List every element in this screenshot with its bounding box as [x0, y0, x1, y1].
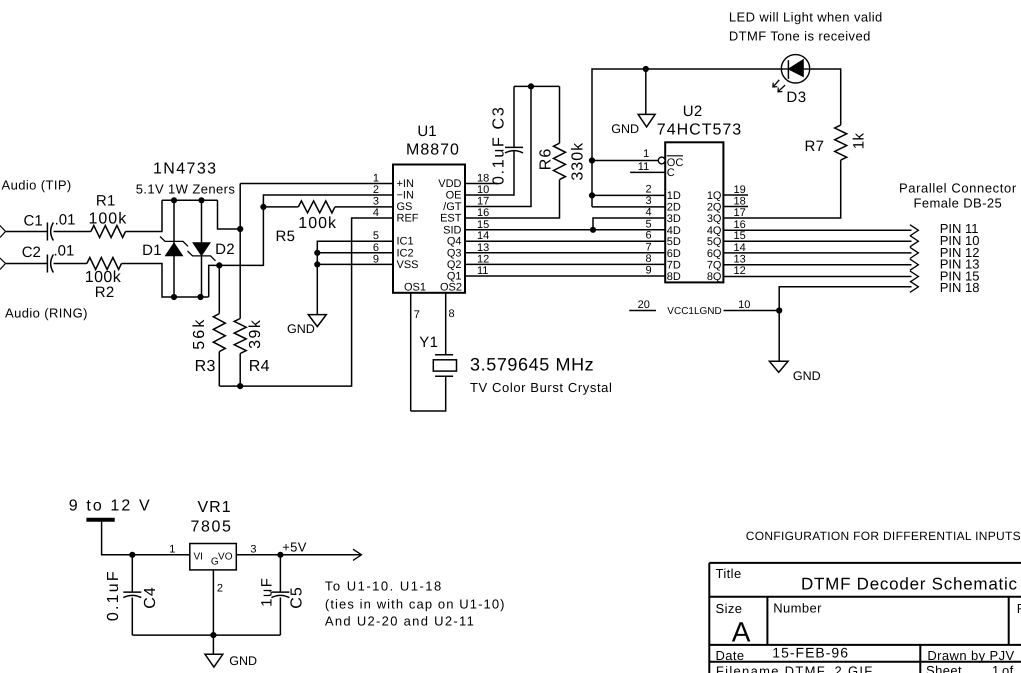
wire RING net to R5/-IN: [209, 207, 264, 297]
wire R3 top lead: [218, 265, 220, 313]
svg-text:Audio (TIP): Audio (TIP): [2, 177, 72, 192]
svg-text:2: 2: [373, 184, 379, 196]
svg-text:5: 5: [645, 218, 651, 230]
svg-text:3: 3: [250, 544, 256, 556]
svg-text:C2: C2: [22, 244, 41, 261]
svg-text:16: 16: [477, 207, 489, 219]
svg-text:R1: R1: [96, 193, 116, 210]
svg-text:1N4733: 1N4733: [153, 161, 217, 178]
wire GND stem: [645, 69, 647, 114]
svg-text:R4: R4: [249, 358, 270, 375]
connector Audio RING input: [0, 258, 6, 270]
svg-text:C1: C1: [24, 213, 43, 230]
svg-text:100k: 100k: [298, 215, 337, 232]
wire Q1 to 8D: [465, 275, 665, 277]
resistor R2: [87, 258, 122, 270]
svg-text:OS2: OS2: [440, 282, 462, 294]
svg-text:REF: REF: [397, 213, 419, 225]
svg-text:11: 11: [638, 161, 649, 173]
svg-text:.01: .01: [55, 212, 76, 229]
ground GND power: [205, 654, 223, 667]
svg-text:+IN: +IN: [397, 178, 414, 190]
svg-text:/GT: /GT: [443, 201, 462, 213]
wire TIP to C1: [6, 231, 48, 233]
svg-text:16: 16: [734, 219, 746, 231]
svg-text:13: 13: [734, 253, 746, 265]
resistor R3: [213, 314, 225, 352]
svg-text:5.1V 1W Zeners: 5.1V 1W Zeners: [136, 182, 236, 197]
svg-text:6: 6: [373, 242, 379, 254]
svg-text:6: 6: [645, 230, 651, 242]
svg-text:19: 19: [734, 184, 746, 196]
svg-text:20: 20: [638, 299, 650, 311]
wire C2 to R2: [54, 263, 87, 265]
wire Q4 to 5D: [465, 240, 665, 242]
wire SID to U2 4D: [465, 229, 665, 231]
svg-text:1: 1: [373, 173, 379, 185]
wire 1D connect: [592, 194, 665, 196]
node 1D junction: [589, 193, 594, 198]
svg-text:PIN 18: PIN 18: [940, 280, 980, 295]
svg-text:10: 10: [738, 299, 750, 311]
wire R5 left lead: [263, 206, 298, 208]
junction dots zener rails: [171, 198, 176, 203]
svg-text:R7: R7: [805, 138, 825, 155]
svg-text:5: 5: [373, 230, 379, 242]
svg-text:2D: 2D: [667, 202, 681, 214]
ground GND near U1: [308, 315, 326, 327]
svg-text:To U1-10. U1-18: To U1-10. U1-18: [325, 579, 443, 594]
resistor R4: [234, 319, 246, 354]
wire VR1 output: [236, 554, 361, 556]
svg-text:Female DB-25: Female DB-25: [914, 196, 1003, 211]
svg-text:GS: GS: [397, 201, 413, 213]
svg-text:18: 18: [477, 173, 489, 185]
svg-text:1: 1: [169, 544, 175, 556]
svg-text:And U2-20 and U2-11: And U2-20 and U2-11: [325, 614, 475, 629]
svg-text:7D: 7D: [667, 259, 681, 271]
svg-text:GND: GND: [287, 322, 315, 336]
svg-text:R6: R6: [537, 148, 554, 170]
wire R2 to zener network bottom: [122, 264, 209, 298]
wire U2 pin 10 stub: [724, 310, 780, 312]
wire Q2 to 7D: [465, 263, 665, 265]
wire R5 to GS: [335, 206, 393, 208]
wire crystal bottom loop: [411, 376, 446, 411]
wire /GT up: [465, 86, 531, 206]
svg-text:U2: U2: [683, 103, 703, 120]
svg-text:100k: 100k: [89, 210, 128, 227]
wire Q3 to 6D: [465, 252, 665, 254]
svg-text:TV Color Burst Crystal: TV Color Burst Crystal: [470, 380, 613, 395]
node TIP junction: [238, 226, 243, 231]
wire supply down: [102, 522, 190, 555]
wire 4Q to PIN 11: [723, 229, 911, 231]
svg-text:SID: SID: [443, 224, 461, 236]
svg-text:R5: R5: [276, 228, 296, 245]
svg-text:Filename DTMF_2.GIF: Filename DTMF_2.GIF: [716, 664, 874, 673]
svg-text:VSS: VSS: [397, 259, 419, 271]
wire pin 11 stub: [630, 171, 665, 173]
svg-text:DTMF Tone is received: DTMF Tone is received: [729, 28, 871, 43]
resistor R1: [91, 226, 126, 238]
wire R6 top lead: [559, 86, 561, 143]
svg-text:D3: D3: [786, 89, 806, 106]
svg-text:17: 17: [734, 207, 746, 219]
svg-text:7: 7: [414, 309, 420, 321]
svg-text:Date: Date: [716, 648, 745, 663]
wire 7Q to PIN 13: [723, 264, 911, 266]
svg-text:EST: EST: [440, 213, 462, 225]
capacitor C1: [46, 223, 48, 241]
node C4 junction: [130, 552, 135, 557]
node C5 junction: [278, 552, 283, 557]
svg-text:7: 7: [645, 241, 651, 253]
wire U2 pin 20 stub: [629, 310, 656, 312]
svg-text:OS1: OS1: [404, 282, 426, 294]
wire OS1 pin 7: [410, 293, 412, 411]
wire SID branch to 3D: [593, 218, 665, 230]
svg-text:11: 11: [477, 265, 488, 277]
wire C3 top to rail: [513, 86, 515, 147]
svg-text:6Q: 6Q: [707, 248, 722, 260]
svg-text:1D: 1D: [667, 190, 681, 202]
svg-text:0.1uF: 0.1uF: [105, 569, 122, 621]
svg-text:3Q: 3Q: [707, 213, 722, 225]
svg-text:8Q: 8Q: [707, 271, 722, 283]
svg-text:U1: U1: [417, 123, 436, 140]
svg-text:4: 4: [645, 207, 651, 219]
svg-text:Rev: Rev: [1017, 601, 1021, 616]
svg-text:12: 12: [477, 253, 489, 265]
svg-text:VCC1LGND: VCC1LGND: [667, 306, 721, 317]
wire OE to C3: [465, 151, 514, 196]
svg-text:LED will Light when valid: LED will Light when valid: [729, 10, 883, 25]
svg-text:Audio (RING): Audio (RING): [5, 306, 88, 321]
wire C1 to R1: [54, 231, 91, 233]
wire R6 to EST: [465, 180, 560, 218]
svg-text:IC2: IC2: [397, 247, 414, 259]
svg-text:17: 17: [477, 196, 489, 208]
svg-text:2Q: 2Q: [707, 202, 722, 214]
svg-text:18: 18: [734, 196, 746, 208]
svg-text:GND: GND: [229, 654, 257, 668]
node GND branch on rail: [643, 66, 648, 71]
svg-text:VDD: VDD: [438, 178, 461, 190]
svg-text:15: 15: [734, 230, 746, 242]
svg-text:D1: D1: [142, 242, 162, 259]
wire 1Q stub pin 19: [723, 194, 748, 196]
svg-text:39k: 39k: [247, 319, 264, 349]
svg-text:Q3: Q3: [447, 247, 462, 259]
svg-text:(ties in with cap on U1-10): (ties in with cap on U1-10): [325, 597, 506, 612]
capacitor C2: [46, 255, 48, 273]
svg-text:4: 4: [373, 207, 379, 219]
svg-text:330k: 330k: [570, 142, 587, 181]
svg-text:7805: 7805: [191, 519, 233, 536]
svg-text:R2: R2: [95, 284, 115, 301]
svg-text:Q4: Q4: [447, 236, 462, 248]
svg-text:R3: R3: [195, 358, 216, 375]
svg-text:10: 10: [477, 184, 489, 196]
svg-text:.01: .01: [54, 243, 75, 260]
svg-text:12: 12: [734, 265, 746, 277]
svg-text:3: 3: [373, 196, 379, 208]
svg-text:74HCT573: 74HCT573: [657, 121, 742, 138]
wire ground rail: [132, 634, 280, 636]
wire VDD stub pin 18: [465, 183, 498, 185]
wire 2D connect: [592, 206, 665, 208]
wire R4 bottom lead: [239, 354, 241, 387]
svg-text:9: 9: [373, 253, 379, 265]
diode D2 (zener): [201, 200, 203, 297]
node rail junction: [528, 84, 533, 89]
wire junction down to R4: [239, 229, 241, 319]
svg-text:A: A: [732, 616, 751, 647]
svg-text:5D: 5D: [667, 236, 681, 248]
svg-text:1: 1: [992, 663, 1000, 673]
node pin10 ground junction: [777, 308, 782, 313]
svg-text:7Q: 7Q: [707, 259, 722, 271]
svg-text:9 to 12 V: 9 to 12 V: [69, 498, 152, 515]
svg-text:5Q: 5Q: [707, 236, 722, 248]
svg-text:0.1uF C3: 0.1uF C3: [491, 106, 508, 185]
svg-text:9: 9: [645, 265, 651, 277]
svg-text:15: 15: [477, 219, 489, 231]
svg-text:15-FEB-96: 15-FEB-96: [772, 644, 849, 660]
svg-text:4Q: 4Q: [707, 225, 722, 237]
node R3 branch: [217, 263, 222, 268]
svg-text:D2: D2: [215, 241, 235, 258]
svg-text:VO: VO: [218, 552, 233, 563]
resistor R5: [298, 201, 335, 213]
wire R1 to zener network: [126, 200, 163, 231]
svg-text:of: of: [1002, 663, 1014, 673]
wire -IN from U1: [263, 195, 393, 207]
svg-text:C4: C4: [142, 586, 159, 608]
wire 8Q to PIN 15: [723, 276, 911, 278]
wire OC line: [592, 160, 659, 162]
wire 2Q stub pin 18: [723, 206, 748, 208]
svg-text:CONFIGURATION FOR DIFFERENTIAL: CONFIGURATION FOR DIFFERENTIAL INPUTS: [746, 529, 1021, 543]
node R5 left junction: [261, 204, 266, 209]
wire VR1 pin 2: [212, 570, 214, 635]
svg-text:6D: 6D: [667, 248, 681, 260]
svg-text:GND: GND: [793, 369, 821, 383]
svg-text:VI: VI: [194, 552, 203, 563]
svg-text:Parallel Connector: Parallel Connector: [899, 181, 1017, 196]
svg-text:Sheet: Sheet: [926, 663, 962, 673]
wire zener top rail: [162, 199, 218, 201]
ground GND at DB25: [769, 361, 788, 372]
svg-text:2: 2: [645, 184, 651, 196]
svg-text:8D: 8D: [667, 271, 681, 283]
svg-text:OE: OE: [446, 190, 462, 202]
wire RING to C2: [6, 263, 48, 265]
wire REF bias rail: [219, 218, 393, 386]
node VR1 ground junction: [211, 633, 216, 638]
svg-text:1k: 1k: [851, 132, 868, 149]
svg-text:2: 2: [217, 583, 223, 595]
node OC junction: [589, 158, 594, 163]
pin OC bubble: [658, 157, 665, 164]
svg-text:GND: GND: [611, 122, 639, 136]
wire ground net vertical x592: [592, 69, 783, 207]
wire TIP jog to +IN and R4: [218, 200, 241, 229]
wire R3 bottom lead: [218, 352, 220, 387]
svg-text:VR1: VR1: [198, 499, 232, 516]
wire R7 to 3Q: [723, 160, 840, 218]
svg-text:3D: 3D: [667, 213, 681, 225]
svg-text:3.579645 MHz: 3.579645 MHz: [470, 355, 594, 375]
svg-text:DTMF Decoder Schematic: DTMF Decoder Schematic: [801, 575, 1018, 594]
node VSS junction: [315, 262, 320, 267]
svg-text:8: 8: [645, 253, 651, 265]
svg-text:C5: C5: [289, 586, 306, 608]
LED light arrows: [774, 80, 780, 87]
svg-text:Y1: Y1: [419, 334, 438, 351]
svg-text:1uF: 1uF: [259, 577, 276, 607]
wire ground to PIN 18: [779, 287, 911, 362]
node R4 on REF rail: [238, 384, 243, 389]
wire GND stem power: [212, 635, 214, 654]
ground GND near U2: [638, 114, 655, 127]
title block frame: [709, 562, 1021, 564]
capacitor C5: [279, 555, 281, 592]
connector Audio TIP input: [0, 226, 6, 238]
wire top rail C3 R6: [514, 85, 560, 87]
svg-text:Q2: Q2: [447, 259, 462, 271]
wire 5Q to PIN 10: [723, 240, 911, 242]
svg-text:8: 8: [449, 308, 455, 320]
svg-text:13: 13: [477, 242, 489, 254]
resistor R6: [554, 143, 566, 179]
svg-text:−IN: −IN: [397, 190, 414, 202]
svg-text:IC1: IC1: [397, 236, 414, 248]
svg-text:Number: Number: [773, 600, 822, 615]
diode D1 (zener): [173, 200, 175, 297]
svg-text:1Q: 1Q: [707, 190, 722, 202]
resistor R7: [835, 125, 847, 160]
wire LED to R7: [810, 69, 841, 125]
svg-text:Title: Title: [716, 566, 742, 581]
node IC2 junction: [315, 250, 320, 255]
svg-text:Drawn by PJV: Drawn by PJV: [927, 648, 1014, 663]
svg-text:14: 14: [477, 230, 489, 242]
node SID junction: [590, 227, 595, 232]
svg-text:56k: 56k: [191, 317, 208, 349]
capacitor C4: [131, 555, 133, 592]
svg-text:14: 14: [734, 242, 746, 254]
svg-text:C: C: [667, 167, 675, 179]
wire OS2 pin 8: [445, 293, 447, 355]
LED D3: [781, 55, 809, 83]
svg-text:3: 3: [645, 195, 651, 207]
wire IC1 IC2 VSS to ground: [317, 241, 393, 314]
capacitor C3: [505, 146, 523, 148]
svg-text:+5V: +5V: [282, 540, 307, 555]
svg-text:Size: Size: [716, 601, 743, 616]
svg-text:4D: 4D: [667, 225, 681, 237]
svg-text:1: 1: [643, 148, 649, 160]
svg-text:M8870: M8870: [406, 142, 460, 159]
wire 6Q to PIN 12: [723, 252, 911, 254]
